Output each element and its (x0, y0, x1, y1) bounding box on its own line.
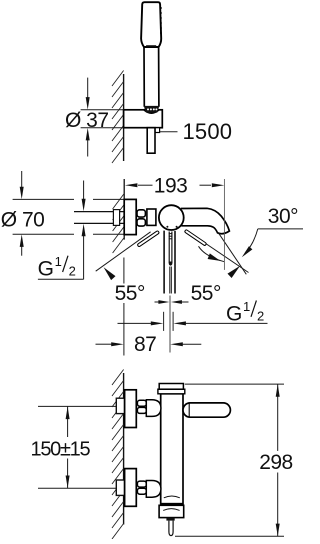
vertical extension line at spout tip (223, 179, 225, 270)
upper union pills (bottom view) (137, 400, 146, 413)
lower pipe nut box (116, 480, 124, 495)
wall hatching (bottom) (112, 370, 124, 540)
svg-text:1500: 1500 (183, 119, 233, 144)
hand shower head (141, 2, 161, 47)
hand shower handle (144, 47, 159, 107)
dimension Ø37 extension lines (81, 110, 124, 128)
wall holder (124, 110, 163, 128)
right 55-degree ray (188, 232, 249, 273)
svg-text:150±15: 150±15 (31, 438, 91, 460)
lever pointing down (middle view) (164, 231, 175, 294)
upper pipe nut box (116, 398, 124, 413)
right 55 rotation arc (199, 246, 225, 261)
dimension 193 line and arrows (138, 184, 211, 186)
leader line to 1500 (160, 131, 178, 133)
svg-text:30°: 30° (268, 205, 298, 228)
hose nut under holder (155, 128, 160, 133)
wall hatching (middle) (113, 194, 125, 254)
svg-text:87: 87 (134, 333, 156, 356)
dimension Ø70 arrows (21, 171, 23, 189)
escutcheon (middle view) (124, 199, 136, 234)
valve body circle (159, 205, 184, 230)
left swung lever stick (137, 230, 159, 247)
right swung lever stick (184, 229, 206, 246)
svg-text:Ø 70: Ø 70 (1, 208, 45, 231)
hose outlet (bottom view) (169, 521, 173, 536)
svg-text:55°: 55° (191, 282, 221, 305)
body cap (159, 384, 183, 390)
svg-text:2: 2 (257, 308, 264, 323)
lower escutcheon (bottom view) (125, 469, 137, 507)
svg-text:55°: 55° (115, 282, 145, 305)
G1/2 bottom arrows (118, 322, 152, 324)
body bottom separation (161, 503, 183, 505)
shower hose stub (147, 128, 155, 154)
svg-text:193: 193 (154, 174, 188, 197)
55 center arrows (155, 301, 160, 303)
union nut pills (137, 210, 145, 226)
spout (181, 208, 230, 233)
dimension 298 line and arrows (277, 384, 279, 536)
dimension 150+-15 line and arrows (67, 406, 69, 488)
wall line (bottom view) (123, 373, 125, 525)
30-degree leader and arc (258, 228, 303, 230)
dimension Ø70 extension lines (13, 199, 125, 234)
right 55 arc arrow (228, 266, 241, 278)
lever ridges (169, 234, 173, 239)
wall hatching (top) (112, 71, 124, 164)
dimension 298 extension lines (175, 384, 284, 536)
lever pin cap (169, 262, 172, 266)
svg-text:2: 2 (69, 264, 76, 279)
30-degree spray line (219, 233, 247, 274)
wall line (top view) (123, 74, 125, 161)
holder cradle curve (144, 110, 159, 113)
wall / 193 extension line (middle view) (123, 179, 125, 240)
body connector (147, 209, 156, 225)
svg-text:1: 1 (55, 254, 62, 269)
body cap flange (158, 389, 185, 394)
lever pill (bottom view) (183, 403, 230, 417)
check valve collar (159, 505, 184, 517)
shower head face line (146, 45, 156, 47)
dimension Ø37 arrows (87, 78, 89, 99)
G1/2 bottom port extension lines (164, 312, 174, 331)
upper escutcheon (bottom view) (125, 390, 137, 428)
left 55-degree ray (96, 232, 151, 271)
hose nipple (166, 518, 174, 521)
left 55 arc arrow (104, 267, 116, 280)
svg-text:G: G (38, 258, 54, 281)
dimension 150+-15 extension lines (38, 406, 116, 488)
lower connection cup (146, 481, 161, 498)
G1/2 pipe arrows (83, 181, 85, 200)
svg-text:298: 298 (259, 451, 293, 474)
handle cone end (144, 106, 158, 112)
shower head spray dots (160, 7, 162, 34)
dimension 87 (123, 258, 125, 356)
mixer body (bottom view) (161, 394, 183, 504)
svg-text:Ø 37: Ø 37 (65, 109, 109, 132)
upper connection cup (146, 400, 161, 417)
lower union pills (bottom view) (137, 481, 146, 494)
svg-text:1: 1 (243, 299, 250, 314)
svg-text:G: G (226, 302, 242, 325)
pipe union nut at wall (113, 210, 119, 226)
pivot dots (166, 226, 168, 228)
supply pipe (middle view) (74, 212, 124, 224)
lever centerline below (169, 296, 171, 353)
body bottom arc (164, 496, 180, 498)
